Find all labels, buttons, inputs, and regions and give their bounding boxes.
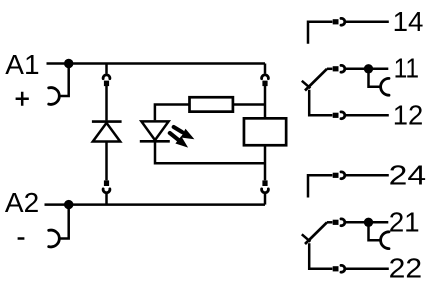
- contact 24 fixed NO stub and wire: [308, 175, 332, 197]
- connector plug line 24: [333, 173, 339, 178]
- wire 11 clamp drop: [369, 69, 380, 87]
- wire coil bottom down: [264, 146, 267, 181]
- wire top bus corner down to coil branch: [264, 64, 267, 74]
- svg-text:A1: A1: [5, 49, 39, 80]
- plus polarity mark: [16, 92, 29, 106]
- wire A2 clamp drop: [60, 205, 69, 239]
- wire top bus A1: [47, 62, 266, 65]
- wire resistor right lead: [234, 103, 266, 106]
- node junction dot 11: [364, 64, 373, 73]
- connector socket bottom of diode branch: [103, 189, 110, 193]
- connector socket top of diode branch: [103, 75, 110, 79]
- wire line 24 to terminal: [345, 174, 388, 177]
- LED arrow upper: [174, 127, 195, 139]
- svg-text:14: 14: [393, 6, 424, 37]
- connector plug line 21: [333, 220, 339, 225]
- connector plug line 12: [333, 113, 339, 118]
- node junction dot A1: [64, 59, 73, 68]
- wire NC riser and line 12: [309, 90, 332, 116]
- LED V2 triangle: [141, 121, 168, 140]
- connector plug top of coil branch: [262, 81, 267, 87]
- LED V2 cathode bar: [140, 140, 170, 143]
- wire bottom bus A2: [45, 203, 266, 206]
- wire socket to bottom bus: [264, 194, 267, 205]
- clamp contact 11: [381, 78, 389, 95]
- diode V1 triangle: [93, 123, 120, 142]
- wire diode to plug: [105, 142, 108, 181]
- connector plug bottom of coil branch: [262, 180, 267, 186]
- wire diode branch top: [105, 64, 108, 74]
- contact 14 fixed NO stub and wire: [308, 22, 332, 44]
- switch arm pole 2: [305, 222, 327, 244]
- wire common 11 stub: [327, 68, 332, 71]
- connector plug line 11: [333, 66, 339, 71]
- connector socket line 11: [341, 65, 345, 72]
- resistor R1: [190, 97, 233, 111]
- wire A1 clamp drop: [60, 64, 69, 97]
- svg-text:24: 24: [389, 159, 427, 190]
- connector plug top of diode branch: [104, 81, 109, 87]
- actuator tick pole 2: [302, 234, 311, 241]
- svg-text:22: 22: [389, 253, 423, 284]
- clamp contact A2: [49, 230, 60, 247]
- connector socket top of coil branch: [262, 75, 269, 79]
- wire LED bottom to coil line: [155, 141, 265, 163]
- clamp contact A1: [49, 88, 60, 105]
- node junction dot 21: [364, 218, 373, 227]
- wire line 12 to terminal: [345, 114, 388, 117]
- connector socket bottom of coil branch: [262, 189, 269, 193]
- LED arrow lower: [170, 133, 188, 148]
- wire NC riser and line 22: [309, 243, 332, 268]
- wire resistor left lead and LED branch corner: [155, 105, 189, 121]
- connector plug line 22: [333, 266, 339, 271]
- connector socket line 22: [341, 265, 345, 272]
- wire socket to bottom bus: [105, 194, 108, 205]
- svg-text:12: 12: [393, 100, 424, 131]
- connector socket line 12: [341, 112, 345, 119]
- wire line 22 to terminal: [345, 268, 388, 271]
- wire line 14 to terminal: [345, 21, 388, 24]
- wire plug to diode: [105, 86, 108, 121]
- clamp contact 21: [381, 232, 389, 249]
- relay coil K1: [244, 118, 286, 145]
- actuator tick pole 1: [302, 81, 311, 88]
- wire line 21 to terminal: [345, 221, 388, 224]
- svg-text:11: 11: [394, 53, 420, 84]
- wire 21 clamp drop: [369, 222, 380, 240]
- connector plug bottom of diode branch: [104, 180, 109, 186]
- wire plug down to coil: [264, 86, 267, 118]
- connector socket line 14: [341, 18, 345, 25]
- svg-text:21: 21: [389, 207, 420, 238]
- diode V1 cathode bar: [92, 120, 122, 123]
- connector socket line 21: [341, 219, 345, 226]
- node junction dot A2: [64, 200, 73, 209]
- wire common 21 stub: [327, 221, 332, 224]
- wire line 11 to terminal: [345, 68, 388, 71]
- minus polarity mark: [18, 237, 25, 240]
- connector plug line 14: [333, 19, 339, 24]
- svg-text:A2: A2: [5, 187, 39, 218]
- connector socket line 24: [341, 172, 345, 179]
- switch arm pole 1: [305, 69, 327, 91]
